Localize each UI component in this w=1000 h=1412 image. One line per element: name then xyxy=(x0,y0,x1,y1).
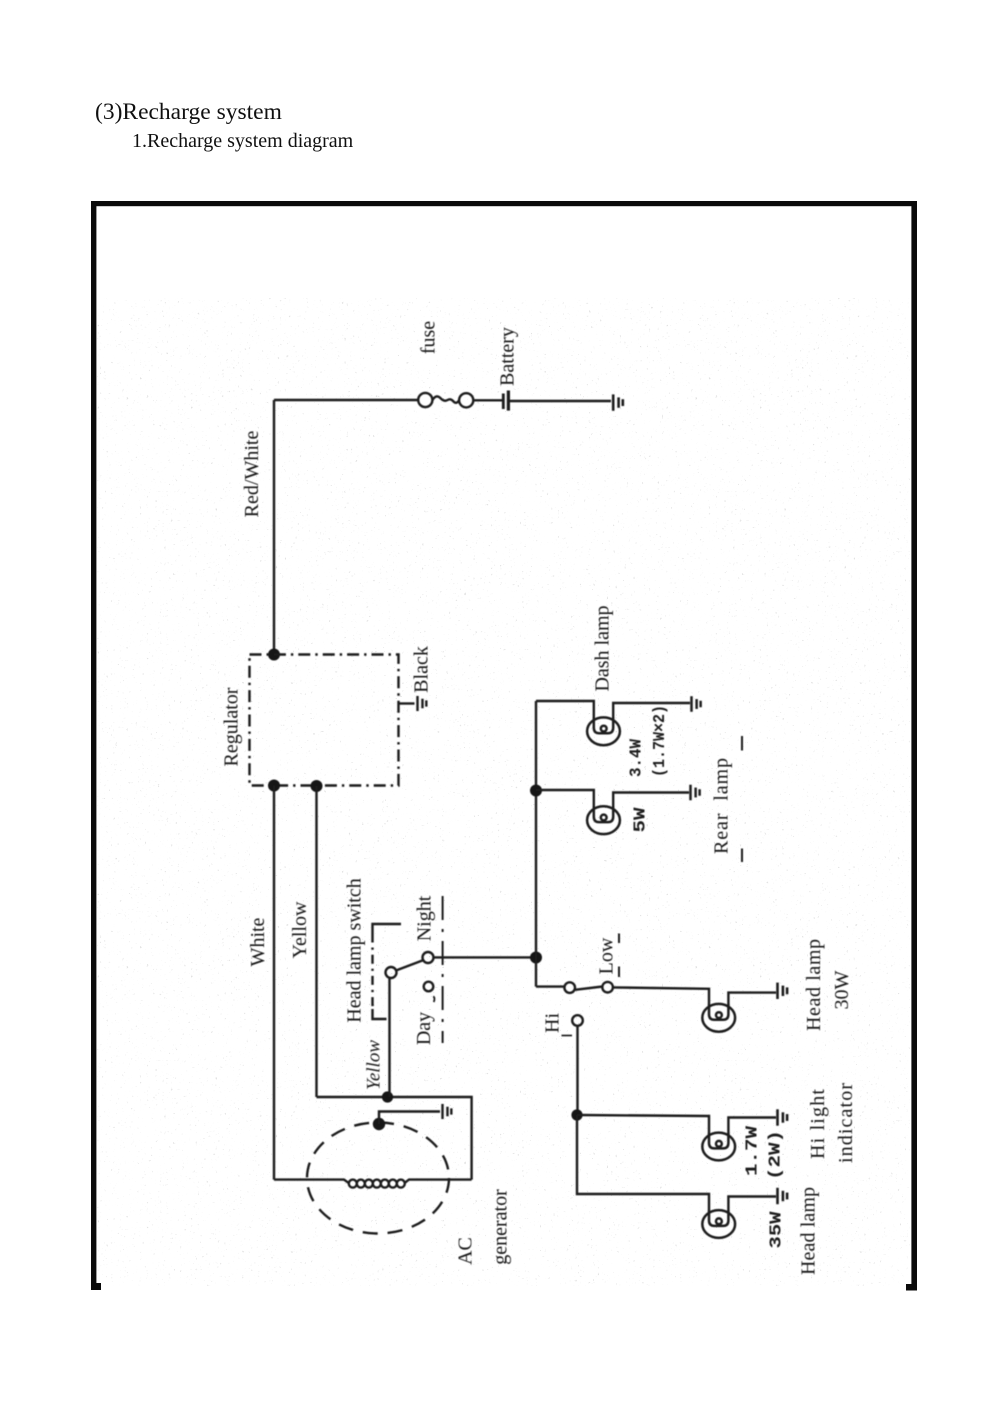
svg-text:Hi: Hi xyxy=(542,1013,564,1033)
wire: generator ground stub xyxy=(379,1112,440,1125)
lamp: dash lamp xyxy=(587,717,620,745)
head lamp switch bracket xyxy=(373,924,402,934)
underline: rear lamp xyxy=(741,736,743,862)
svg-text:generator: generator xyxy=(490,1189,512,1265)
svg-text:White: White xyxy=(247,917,269,966)
wire: bus corner to low switch xyxy=(536,985,564,987)
wire: yellow run to generator right side xyxy=(317,1097,472,1180)
svg-text:3.4W: 3.4W xyxy=(628,738,647,777)
wire: fuse to battery xyxy=(473,399,502,401)
node: bus night junction xyxy=(530,952,542,964)
battery xyxy=(502,394,505,410)
switch contact: Hi xyxy=(572,1015,583,1026)
ground: hi indicator xyxy=(778,1109,788,1125)
wire: Night contact to bus xyxy=(434,956,532,958)
switch contact: Day xyxy=(424,982,434,992)
wire: regulator output to fuse xyxy=(274,399,418,401)
scan noise texture xyxy=(97,298,910,1286)
wire: lighting bus vertical xyxy=(535,701,537,987)
svg-text:1.7W: 1.7W xyxy=(744,1125,763,1176)
wire: dash lamp to ground xyxy=(613,703,690,718)
wire: hi indicator branch xyxy=(577,1115,709,1134)
wire: low to head lamp 30W xyxy=(613,987,709,1004)
svg-text:(1.7W×2): (1.7W×2) xyxy=(651,705,670,777)
node: regulator yellow terminal xyxy=(311,780,323,792)
wire: rear lamp to ground xyxy=(613,793,689,808)
ground: 35W lamp xyxy=(778,1188,788,1204)
svg-text:Red/White: Red/White xyxy=(241,431,263,518)
wire: generator bottom with coil xyxy=(274,1180,349,1184)
lamp: head lamp 35W xyxy=(702,1210,735,1238)
svg-text:AC: AC xyxy=(455,1237,477,1265)
svg-text:Regulator: Regulator xyxy=(221,687,243,766)
svg-text:Black: Black xyxy=(411,646,433,693)
ground: dash lamp xyxy=(692,696,701,712)
wire: Yellow vertical xyxy=(315,786,317,1097)
switch contact: low left xyxy=(564,982,575,993)
ground: battery xyxy=(613,394,623,410)
svg-text:Head lamp switch: Head lamp switch xyxy=(344,878,366,1022)
switch contact: common xyxy=(386,967,397,978)
svg-text:Yellow: Yellow xyxy=(364,1040,385,1090)
wire: dash lamp branch xyxy=(536,701,594,718)
svg-text:(2W): (2W) xyxy=(767,1130,786,1180)
wire: battery to ground xyxy=(508,400,611,402)
fuse xyxy=(418,393,432,407)
lamp: rear lamp xyxy=(587,806,620,834)
svg-text:Day: Day xyxy=(413,1012,435,1045)
svg-text:Battery: Battery xyxy=(497,327,519,386)
switch contact: low right xyxy=(602,982,613,993)
lamp: head lamp 30W xyxy=(702,1004,735,1032)
ground: generator xyxy=(443,1104,452,1119)
underline: Hi xyxy=(562,1035,573,1037)
wire: indicator to ground xyxy=(728,1118,776,1134)
svg-text:Head lamp: Head lamp xyxy=(798,1187,820,1275)
node: rear lamp tap xyxy=(530,785,542,797)
regulator box xyxy=(250,655,399,786)
svg-text:Head lamp: Head lamp xyxy=(803,939,825,1031)
day comma mark xyxy=(433,997,434,1003)
wire: head lamp 30W to ground xyxy=(728,993,776,1005)
svg-text:Hi light: Hi light xyxy=(807,1089,829,1159)
svg-text:Dash lamp: Dash lamp xyxy=(592,605,614,691)
wire: regulator ground stub xyxy=(399,702,415,704)
wire: rear lamp branch xyxy=(536,790,594,807)
wire: hi down to 35W branch xyxy=(577,1115,709,1211)
svg-text:Night: Night xyxy=(414,895,436,941)
switch blade xyxy=(396,960,423,970)
wire: switch common down to yellow xyxy=(388,978,390,1097)
ground: head lamp 30W xyxy=(778,983,788,999)
switch contact: Night xyxy=(423,952,434,963)
node: generator ground tap xyxy=(373,1118,385,1130)
svg-text:30W: 30W xyxy=(831,970,853,1009)
svg-text:Low: Low xyxy=(596,937,618,974)
lamp: hi light indicator xyxy=(702,1133,735,1161)
svg-text:Yellow: Yellow xyxy=(289,901,311,958)
switch blade: dimmer xyxy=(575,987,603,990)
ground: rear lamp xyxy=(691,785,700,801)
node: regulator white terminal xyxy=(268,780,280,792)
underline marks: Low xyxy=(618,934,620,978)
wire: White vertical xyxy=(273,786,275,1180)
wire: Hi contact down xyxy=(576,1026,578,1112)
wire: 35W lamp to ground xyxy=(728,1197,776,1212)
svg-text:35W: 35W xyxy=(768,1211,787,1249)
svg-text:Rear lamp: Rear lamp xyxy=(711,758,733,854)
ground: regulator Black xyxy=(418,696,427,711)
node: hi junction xyxy=(571,1109,582,1120)
svg-text:fuse: fuse xyxy=(418,321,440,354)
svg-text:(3)Recharge system: (3)Recharge system xyxy=(95,99,282,125)
svg-text:5W: 5W xyxy=(632,807,651,833)
svg-text:1.Recharge system diagram: 1.Recharge system diagram xyxy=(132,130,354,152)
node: regulator B+ terminal xyxy=(268,649,280,661)
node: yellow/switch junction xyxy=(382,1091,393,1102)
generator body xyxy=(307,1123,449,1234)
wire: Red/White vertical xyxy=(273,400,275,652)
underline marks: Night / Day xyxy=(442,896,444,1043)
svg-text:indicator: indicator xyxy=(835,1083,857,1163)
